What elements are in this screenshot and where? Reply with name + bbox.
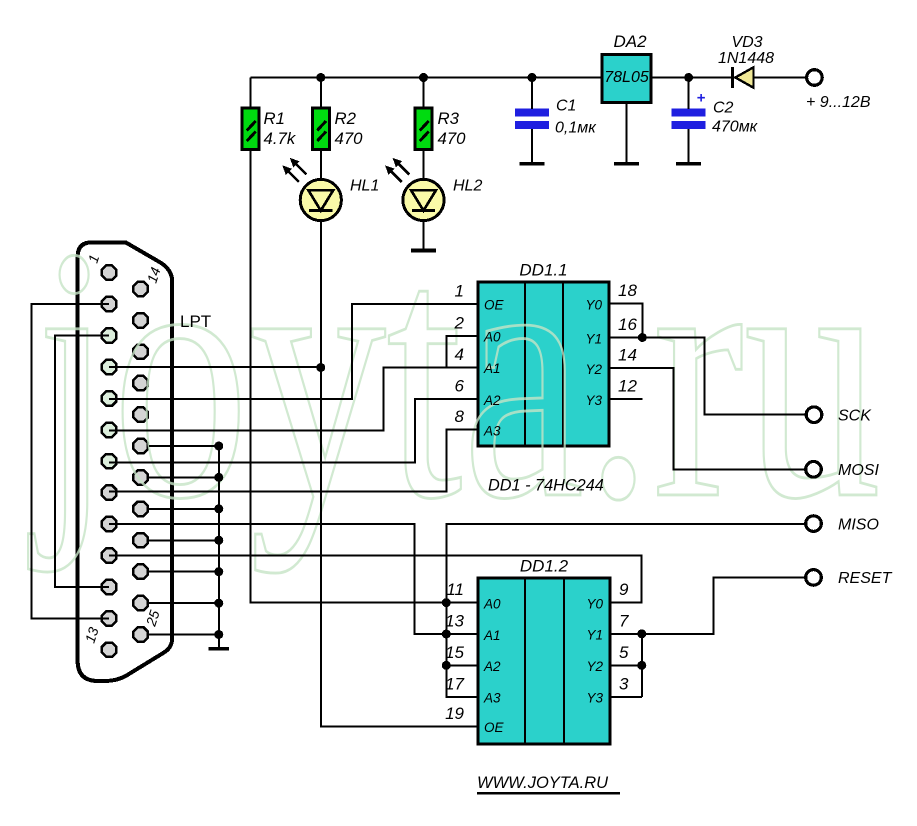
svg-text:3: 3	[619, 674, 629, 693]
svg-text:Y2: Y2	[586, 659, 603, 674]
junction A1 DD1.2	[442, 630, 451, 639]
svg-text:A2: A2	[483, 393, 501, 408]
junction pin24	[214, 599, 223, 608]
junction Y2 DD1.2	[637, 661, 646, 670]
junction C2 rail	[684, 73, 693, 82]
wire LPT pin25 to ground bus	[149, 634, 219, 636]
svg-text:Y0: Y0	[585, 297, 602, 312]
svg-text:15: 15	[445, 643, 464, 662]
svg-text:A1: A1	[483, 361, 501, 376]
svg-text:+: +	[697, 90, 706, 107]
svg-text:12: 12	[618, 377, 637, 396]
wire LPT pin7 to DD1.1 A2 (pin6)	[109, 399, 478, 462]
wire ground bus	[218, 446, 220, 649]
svg-text:0,1мк: 0,1мк	[555, 120, 597, 137]
LPT pin 4	[102, 360, 116, 374]
wire LPT pin21 to ground bus	[149, 508, 219, 510]
svg-text:Y0: Y0	[586, 596, 603, 611]
svg-text:RESET: RESET	[838, 570, 893, 587]
resistor R1 4.7k	[242, 108, 259, 150]
svg-text:R1: R1	[264, 109, 285, 128]
svg-text:Y1: Y1	[586, 628, 603, 643]
LPT pin 24	[133, 596, 147, 610]
svg-text:OE: OE	[484, 720, 505, 735]
LPT pin 18	[133, 407, 147, 421]
junction C1 rail	[528, 73, 537, 82]
junction R2 rail	[316, 73, 325, 82]
terminal SCK	[806, 407, 822, 423]
wire LPT pin8 to DD1.1 A3 (pin8)	[109, 430, 478, 492]
svg-text:8: 8	[455, 407, 465, 426]
junction pin23	[214, 567, 223, 576]
svg-text:joyta.ru: joyta.ru	[27, 172, 881, 574]
svg-text:2: 2	[454, 313, 465, 332]
wire Y0 to Y1 (DD1.1)	[609, 304, 642, 338]
LPT pin 2	[102, 297, 116, 311]
svg-text:Y1: Y1	[585, 331, 602, 346]
wire Y3 stub (pin12)	[609, 398, 642, 400]
svg-text:470мк: 470мк	[712, 119, 759, 136]
svg-text:R3: R3	[438, 109, 460, 128]
wire Y2 stub DD1.2	[610, 664, 642, 666]
svg-text:+ 9...12В: + 9...12В	[806, 94, 871, 111]
wire DA2 out to diode	[651, 77, 732, 79]
LPT pin 17	[133, 376, 147, 390]
wire Y1 to SCK	[609, 338, 806, 415]
LPT pin 3	[102, 328, 116, 342]
junction pin20	[214, 473, 223, 482]
capacitor C1 0.1uF	[515, 109, 549, 117]
svg-text:Y3: Y3	[586, 691, 603, 706]
ground (HL2)	[423, 221, 425, 251]
svg-text:5: 5	[619, 643, 629, 662]
watermark joyta.ru	[27, 172, 881, 574]
svg-text:19: 19	[445, 704, 464, 723]
svg-text:MISO: MISO	[838, 516, 879, 533]
LPT pin 11	[102, 580, 116, 594]
wire LPT pin10 to DD1.2 Y0 (pin9)	[109, 555, 641, 602]
svg-text:VD3: VD3	[731, 34, 762, 51]
svg-text:6: 6	[455, 377, 465, 396]
LED HL2	[403, 179, 444, 220]
LPT pin 15	[133, 313, 147, 327]
wire R2 top lead	[320, 78, 322, 109]
wire LPT pin6 to DD1.1 A1 (pin4)	[109, 367, 478, 430]
wire MISO bus	[446, 524, 805, 697]
svg-text:C1: C1	[556, 98, 576, 115]
svg-text:7: 7	[619, 611, 629, 630]
wire LPT pin3 to pin11 (left loop)	[55, 336, 109, 587]
ground (DA2)	[626, 102, 628, 163]
wire LPT pin23 to ground bus	[149, 571, 219, 573]
resistor R2 470	[312, 108, 329, 150]
junction Y1 DD1.1	[638, 333, 647, 342]
terminal MOSI	[806, 462, 822, 478]
wire R3 top lead	[423, 78, 425, 109]
ground (C2)	[688, 129, 690, 164]
LPT pin 13	[102, 643, 116, 657]
svg-text:LPT: LPT	[180, 312, 211, 331]
terminal MISO	[806, 516, 822, 532]
terminal +9...12V	[807, 70, 823, 86]
wire C2 top lead	[688, 78, 690, 110]
junction R3 rail	[419, 73, 428, 82]
junction Y1 DD1.2	[637, 629, 646, 638]
LPT pin 21	[133, 502, 147, 516]
svg-text:MOSI: MOSI	[838, 462, 879, 479]
junction pin22	[214, 536, 223, 545]
svg-text:DD1.1: DD1.1	[519, 261, 567, 280]
IC DD1.2 74HC244 buffer	[478, 578, 610, 744]
wire LPT pin5 to DD1.1 OE (pin1)	[109, 304, 478, 399]
LPT pin 23	[133, 564, 147, 578]
wire R1 top lead	[250, 78, 252, 109]
LED HL1	[300, 179, 341, 220]
wire LPT pin19 to ground bus	[149, 445, 219, 447]
svg-text:DA2: DA2	[613, 32, 647, 51]
resistor R3 470	[415, 108, 432, 150]
LPT pin 16	[133, 345, 147, 359]
wire Y2 to MOSI	[609, 368, 805, 469]
svg-text:11: 11	[446, 580, 464, 599]
LPT pin 9	[102, 517, 116, 531]
svg-text:1N1448: 1N1448	[718, 50, 774, 67]
wire DD1.1 A0 stub (pin2)	[446, 336, 478, 368]
IC DD1.1 74HC244 buffer	[478, 282, 609, 446]
capacitor C2 470uF	[672, 109, 706, 117]
junction HL1/pin4/OE net	[316, 363, 325, 372]
wire LPT pin22 to ground bus	[149, 539, 219, 541]
svg-text:SCK: SCK	[838, 408, 872, 425]
svg-text:A3: A3	[483, 691, 501, 706]
junction pin19	[214, 442, 223, 451]
svg-text:WWW.JOYTA.RU: WWW.JOYTA.RU	[477, 774, 608, 792]
svg-text:A1: A1	[483, 628, 501, 643]
wire LPT pin20 to ground bus	[149, 476, 219, 478]
svg-text:A0: A0	[483, 596, 501, 611]
wire HL1 to DD1.2 OE (pin19)	[321, 221, 478, 727]
voltage regulator DA2 78L05	[602, 55, 651, 103]
LPT pin 7	[102, 454, 116, 468]
wire Y3 to bus DD1.2	[610, 696, 642, 698]
wire Y1-Y3 bus DD1.2	[641, 634, 643, 697]
svg-text:A0: A0	[483, 330, 501, 345]
svg-text:78L05: 78L05	[604, 69, 649, 86]
svg-text:DD1.2: DD1.2	[520, 557, 569, 576]
svg-text:14: 14	[618, 346, 637, 365]
LPT pin 25	[133, 627, 147, 641]
LPT pin 5	[102, 391, 116, 405]
LPT pin 19	[133, 439, 147, 453]
LPT pin 1	[102, 265, 116, 279]
LPT pin 12	[102, 611, 116, 625]
svg-text:A2: A2	[483, 659, 501, 674]
wire diode to power terminal	[752, 77, 807, 79]
svg-text:4: 4	[455, 345, 464, 364]
svg-text:17: 17	[445, 674, 464, 693]
wire R1 to DD1.2 A0 (pin11)	[251, 150, 479, 603]
svg-text:DD1 - 74HC244: DD1 - 74HC244	[488, 477, 604, 495]
svg-text:16: 16	[618, 315, 637, 334]
svg-text:13: 13	[445, 612, 464, 631]
LPT pin 20	[133, 470, 147, 484]
wire Y1 to RESET	[610, 577, 805, 633]
ground (C1)	[531, 129, 533, 164]
wire C1 top lead	[531, 78, 533, 110]
LPT pin 6	[102, 423, 116, 437]
svg-text:18: 18	[618, 281, 637, 300]
svg-text:C2: C2	[713, 100, 734, 117]
wire LPT pin2 to pin12 (left loop)	[32, 304, 110, 618]
svg-text:A3: A3	[483, 424, 501, 439]
connector LPT (DB-25) body	[78, 242, 173, 681]
wire R3 to HL2	[423, 150, 425, 181]
junction A0 DD1.2	[442, 598, 451, 607]
junction pin25	[214, 630, 223, 639]
ground (LPT bus)	[209, 647, 230, 651]
wire LPT pin9 to DD1.2 A1 (pin13)	[109, 524, 478, 634]
diode VD3 1N1448	[731, 67, 734, 88]
svg-text:Y3: Y3	[585, 393, 602, 408]
LPT pin 10	[102, 548, 116, 562]
svg-text:4.7k: 4.7k	[264, 129, 297, 148]
svg-text:1: 1	[455, 281, 464, 300]
svg-text:OE: OE	[484, 298, 505, 313]
svg-text:470: 470	[438, 129, 467, 148]
wire A2 stub DD1.2	[446, 664, 478, 666]
svg-text:470: 470	[335, 129, 364, 148]
junction A2 DD1.2	[442, 661, 451, 670]
wire R2 to HL1	[320, 150, 322, 181]
LPT pin 8	[102, 485, 116, 499]
svg-text:9: 9	[619, 580, 629, 599]
wire LPT pin4 to HL1 net	[109, 366, 321, 368]
wire +5V rail	[251, 77, 603, 79]
wire LPT pin24 to ground bus	[149, 602, 219, 604]
junction pin21	[214, 504, 223, 513]
LPT pin 22	[133, 533, 147, 547]
terminal RESET	[806, 570, 822, 586]
svg-text:Y2: Y2	[585, 362, 602, 377]
LPT pin 14	[133, 282, 147, 296]
svg-text:R2: R2	[335, 109, 357, 128]
